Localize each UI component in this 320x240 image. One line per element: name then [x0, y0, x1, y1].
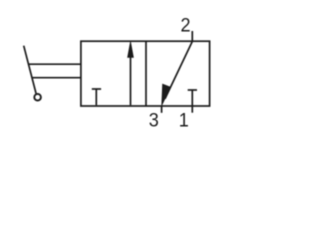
svg-text:1: 1	[179, 109, 189, 131]
svg-text:3: 3	[149, 109, 159, 131]
svg-text:2: 2	[181, 14, 191, 36]
